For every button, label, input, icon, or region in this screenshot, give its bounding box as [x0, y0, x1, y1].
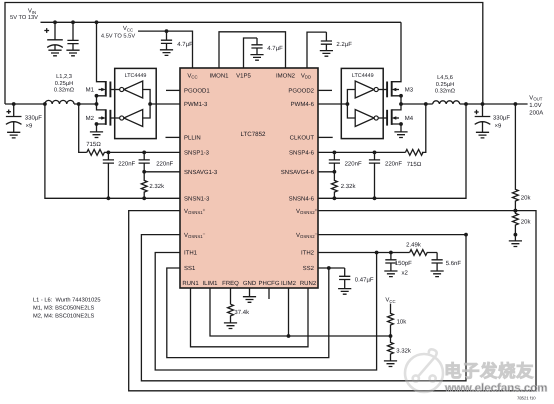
resistor 20k upper [513, 104, 519, 211]
wire DCR sense drop left [79, 104, 87, 152]
capacitor 220nF left inner [143, 152, 145, 160]
wire SS tie loop (SS1 to SS2) [167, 268, 329, 358]
junction ILIM2 [287, 334, 291, 338]
svg-text:VOUT: VOUT [529, 94, 542, 101]
wire ITH2 compensation rail [318, 252, 410, 254]
svg-text:330µF: 330µF [493, 115, 510, 122]
polarity + VIN bulk cap [44, 28, 49, 33]
svg-text:ITH1: ITH1 [184, 250, 198, 257]
svg-text:SNSAVG1-3: SNSAVG1-3 [184, 169, 218, 176]
svg-text:0.47µF: 0.47µF [355, 276, 374, 283]
svg-text:150pF: 150pF [395, 260, 412, 267]
wire PGOOD1 stub [166, 89, 180, 91]
gate driver U2 LTC4449 left box [115, 68, 157, 138]
capacitor ceramic VIN [72, 22, 74, 40]
ground 20k divider [514, 235, 516, 241]
svg-text:1.0V: 1.0V [529, 102, 541, 109]
svg-text:LTC4449: LTC4449 [352, 73, 374, 79]
polarity + 330uF right [474, 110, 478, 114]
svg-text:VCC: VCC [123, 25, 133, 32]
wire V1P5 pin riser [244, 38, 258, 68]
svg-text:FREQ: FREQ [222, 280, 239, 287]
wire SNSN4-6 return [318, 104, 466, 198]
svg-text:SNSP4-6: SNSP4-6 [289, 150, 315, 157]
svg-text:GND: GND [243, 280, 257, 287]
svg-text:5V TO 13V: 5V TO 13V [10, 15, 38, 21]
svg-text:PGOOD1: PGOOD1 [184, 88, 210, 95]
ground VIN ceramic cap [66, 50, 79, 56]
junction switch node DCR tap [77, 102, 81, 106]
svg-text:LTC7852: LTC7852 [241, 131, 267, 138]
svg-text:M2, M4: BSC010NE2LS: M2, M4: BSC010NE2LS [33, 314, 95, 320]
transistor Q4 M4 bottom MOSFET right [392, 104, 401, 110]
capacitor 5.6nF [436, 253, 438, 260]
svg-text:IMON1: IMON1 [209, 72, 229, 79]
svg-text:0.32mΩ: 0.32mΩ [435, 88, 456, 94]
junction 330uF left [12, 102, 16, 106]
inductor L4,5,6 [433, 101, 460, 104]
svg-text:10k: 10k [397, 318, 408, 325]
junction SNSN cap2 right [373, 196, 377, 200]
ground 330uF left [7, 132, 20, 138]
wire SNSN1-3 return [45, 104, 180, 198]
gate driver U3 LTC4449 right box [341, 68, 383, 138]
wire VOUT rail right [460, 103, 528, 105]
svg-text:SNSN1-3: SNSN1-3 [184, 196, 210, 203]
svg-text:4.7µF: 4.7µF [267, 45, 283, 52]
svg-text:37.4k: 37.4k [234, 309, 250, 316]
svg-text:V1P5: V1P5 [236, 72, 251, 79]
svg-text:ITH2: ITH2 [301, 250, 315, 257]
wire PHCFG stub [268, 288, 270, 299]
svg-text:220nF: 220nF [156, 161, 173, 168]
resistor 2.32k right [332, 172, 338, 199]
ground VIN bulk cap [48, 50, 61, 56]
junction M2 source/body [95, 122, 99, 126]
capacitor electrolytic VIN bulk [47, 22, 63, 50]
junction ITH tie [375, 251, 379, 255]
capacitor 150pF x2 [390, 253, 392, 260]
junction SNSP cap2 right [373, 151, 377, 155]
svg-text:200A: 200A [529, 110, 543, 117]
wire PGOOD2 stub [318, 89, 332, 91]
wire FREQ drop [230, 288, 232, 304]
ground 330uF right [476, 132, 489, 138]
wire SS2 to soft-start cap [318, 267, 345, 269]
resistor 3.32k [388, 336, 394, 361]
svg-text:×9: ×9 [495, 122, 503, 129]
buffer top (right driver) [355, 81, 374, 98]
junction inductor right / SNSN return [464, 102, 468, 106]
wire ILIM2 drop [288, 288, 290, 336]
junction VIN-C2 [71, 20, 75, 24]
resistor 2.49k [410, 250, 438, 256]
svg-text:M4: M4 [405, 115, 414, 122]
junction SNSN 2.32k left [142, 196, 146, 200]
svg-text:0.25µH: 0.25µH [436, 82, 454, 88]
svg-text:电子发烧友: 电子发烧友 [444, 361, 534, 381]
svg-text:220nF: 220nF [345, 161, 362, 168]
svg-text:M2: M2 [86, 115, 95, 122]
bubble top buffer right [374, 87, 378, 91]
wire VIN rail [41, 21, 402, 23]
svg-text:2.49k: 2.49k [406, 241, 422, 248]
junction VIN-C1 [53, 20, 57, 24]
capacitor 330uF x9 left [6, 104, 22, 132]
ground M4 source [394, 132, 407, 138]
junction SNSN cap1 left [107, 196, 111, 200]
transistor Q2 M2 bottom MOSFET left [97, 104, 106, 110]
wire VOSNS+ tie loop (VOSNS1+ to VOSNS2+) [129, 211, 536, 391]
svg-text:L1 - L6: Wurth 744301025: L1 - L6: Wurth 744301025 [33, 296, 101, 303]
ground 0.47uF [338, 289, 351, 295]
wire switch node right [401, 103, 433, 105]
svg-text:ILIM2: ILIM2 [281, 280, 297, 287]
svg-text:0.32mΩ: 0.32mΩ [54, 87, 75, 93]
svg-text:RUN1: RUN1 [182, 280, 199, 287]
junction VOSNS2- tie [464, 233, 468, 237]
capacitor 220nF left outer [107, 152, 109, 160]
junction VOUT 20k divider [514, 102, 518, 106]
buffer bottom (left driver) [124, 110, 143, 127]
svg-text:IMON2: IMON2 [276, 72, 296, 79]
ground VDD cap [320, 51, 333, 57]
ground VCC cap [160, 50, 173, 56]
junction VOSNS2+ divider tap [514, 209, 518, 213]
ground 150pF [384, 271, 397, 277]
svg-text:5.6nF: 5.6nF [446, 260, 462, 267]
svg-text:x2: x2 [402, 269, 409, 276]
svg-text:SNSAVG4-6: SNSAVG4-6 [281, 169, 315, 176]
junction SNSP cap1 left [107, 151, 111, 155]
bubble top buffer left [120, 87, 124, 91]
wire ILIM rail (ILIM1 to divider) [210, 288, 391, 336]
svg-text:20k: 20k [521, 218, 532, 225]
wire PWM4-6 to right driver [318, 103, 347, 105]
resistor 715ohm left [87, 150, 180, 156]
resistor 2.32k left [141, 172, 147, 199]
capacitor 0.47uF soft-start [344, 268, 346, 276]
junction SNSAVG right [333, 170, 337, 174]
capacitor 4.7uF V1P5 [256, 38, 258, 45]
ground ILIM divider [384, 361, 397, 367]
wire left driver input tie [143, 90, 150, 119]
wire VOUT top feedback bus (left rail, top line, right drop) [5, 3, 483, 105]
svg-text:PWM4-6: PWM4-6 [291, 101, 315, 108]
wire right driver input tie [347, 90, 355, 119]
transistor Q3 M3 top MOSFET right [392, 22, 401, 81]
ground M2 source [90, 132, 103, 138]
wire CLKOUT stub [318, 136, 333, 138]
svg-text:M1, M3: BSC050NE2LS: M1, M3: BSC050NE2LS [33, 305, 95, 311]
svg-text:220nF: 220nF [118, 161, 135, 168]
svg-text:L4,5,6: L4,5,6 [437, 75, 453, 81]
buffer bottom (right driver) [355, 110, 374, 127]
junction left driver input [148, 102, 152, 106]
junction VOSNS2+ at divider [514, 209, 518, 213]
wire IMON1-IMON2 bracket [219, 32, 286, 68]
junction SNSN 2.32k right [333, 196, 337, 200]
wire switch node left [74, 103, 97, 105]
wire DCR sense drop right [422, 104, 426, 152]
resistor 715ohm right [405, 150, 423, 156]
svg-text:SNSP1-3: SNSP1-3 [184, 150, 210, 157]
junction switch node M3/M4 [399, 102, 403, 106]
watermark logo circle [405, 349, 443, 392]
junction ILIM divider tap [389, 334, 393, 338]
junction right driver input [346, 102, 350, 106]
svg-text:VCC: VCC [385, 297, 395, 304]
polarity + 330uF left [7, 110, 11, 114]
junction ITH2 150pF [389, 251, 393, 255]
ground GND pin [249, 288, 251, 297]
svg-text:×9: ×9 [26, 122, 34, 129]
junction SS tie [327, 266, 331, 270]
wire VDD riser [307, 32, 326, 68]
svg-text:3.32k: 3.32k [396, 348, 412, 355]
ground V1P5 cap [250, 55, 263, 61]
ground 5.6nF [431, 271, 444, 277]
resistor 37.4k FREQ [228, 304, 234, 323]
junction SNSP cap2 left [142, 151, 146, 155]
junction 330uF right [481, 102, 485, 106]
svg-text:4.5V TO 5.5V: 4.5V TO 5.5V [101, 34, 135, 40]
wire PWM1-3 to left driver [150, 103, 180, 105]
svg-text:PHCFG: PHCFG [259, 280, 280, 287]
capacitor 4.7uF VCC [166, 31, 168, 40]
svg-text:CLKOUT: CLKOUT [290, 135, 315, 142]
bubble bottom buffer right [374, 116, 378, 120]
svg-text:2.32k: 2.32k [341, 183, 357, 190]
capacitor 2.2uF VDD [325, 32, 327, 41]
svg-text:PWM1-3: PWM1-3 [184, 101, 208, 108]
bubble bottom buffer left [120, 116, 124, 120]
svg-text:220nF: 220nF [385, 161, 402, 168]
junction M3 source/body [399, 94, 403, 98]
buffer top (left driver) [124, 81, 143, 98]
svg-text:SS1: SS1 [184, 265, 196, 272]
svg-text:20k: 20k [521, 195, 532, 202]
op-amp U1 LTC7852 main controller body [180, 68, 318, 288]
inductor L1,2,3 [45, 100, 74, 104]
transistor Q1 M1 top MOSFET left [97, 22, 106, 81]
wire SNSP4-6 [318, 151, 405, 153]
resistor 20k lower [513, 211, 519, 235]
svg-text:4.7µF: 4.7µF [177, 41, 193, 48]
svg-text:715Ω: 715Ω [407, 161, 422, 168]
wire VOUT rail left [5, 103, 45, 105]
junction switch node DCR tap right [424, 102, 428, 106]
junction VCC cap [165, 29, 169, 33]
junction switch node M1/M2 [95, 102, 99, 106]
junction SNSP cap1 right [333, 151, 337, 155]
wire SNSAVG4-6 stub [318, 171, 334, 173]
svg-text:PGOOD2: PGOOD2 [288, 88, 314, 95]
svg-text:www.elecfans.com: www.elecfans.com [444, 383, 547, 395]
svg-text:VIN: VIN [28, 8, 36, 15]
svg-text:PLLIN: PLLIN [184, 135, 201, 142]
junction M4 source/body [399, 122, 403, 126]
wire SNSAVG1-3 stub [144, 171, 180, 173]
junction VOSNS2- divider bottom [514, 233, 518, 237]
wire PLLIN stub [166, 136, 181, 138]
capacitor 220nF right outer [374, 152, 376, 160]
junction M1 source/body [95, 94, 99, 98]
svg-text:SS2: SS2 [303, 265, 315, 272]
wire ITH tie loop (ITH1 to ITH2) [155, 253, 376, 371]
wire VOSNS- tie loop (VOSNS1- to VOSNS2-) [141, 235, 466, 381]
svg-text:715Ω: 715Ω [86, 141, 101, 148]
svg-text:330µF: 330µF [25, 115, 42, 122]
svg-text:LTC4449: LTC4449 [125, 73, 147, 79]
junction VIN-M1 drain [95, 20, 99, 24]
resistor 10k [388, 304, 394, 336]
svg-text:RUN2: RUN2 [300, 280, 317, 287]
svg-text:0.25µH: 0.25µH [55, 81, 73, 87]
svg-text:L1,2,3: L1,2,3 [56, 74, 72, 80]
svg-text:M3: M3 [405, 87, 414, 94]
ground FREQ resistor [224, 323, 237, 329]
svg-text:M1: M1 [86, 87, 95, 94]
wire RUN tie loop (RUN1 to RUN2) [191, 288, 309, 347]
capacitor 220nF right inner [333, 152, 335, 160]
svg-text:78521 f10: 78521 f10 [517, 396, 536, 401]
capacitor 330uF x9 right [475, 104, 491, 132]
junction SNSAVG left [142, 170, 146, 174]
junction inductor left / VOUT rail [43, 102, 47, 106]
svg-text:2.32k: 2.32k [149, 183, 165, 190]
wire VCC to chip VCC pin [138, 31, 193, 68]
svg-text:2.2µF: 2.2µF [336, 41, 352, 48]
svg-text:SNSN4-6: SNSN4-6 [289, 196, 315, 203]
svg-text:ILIM1: ILIM1 [202, 280, 218, 287]
